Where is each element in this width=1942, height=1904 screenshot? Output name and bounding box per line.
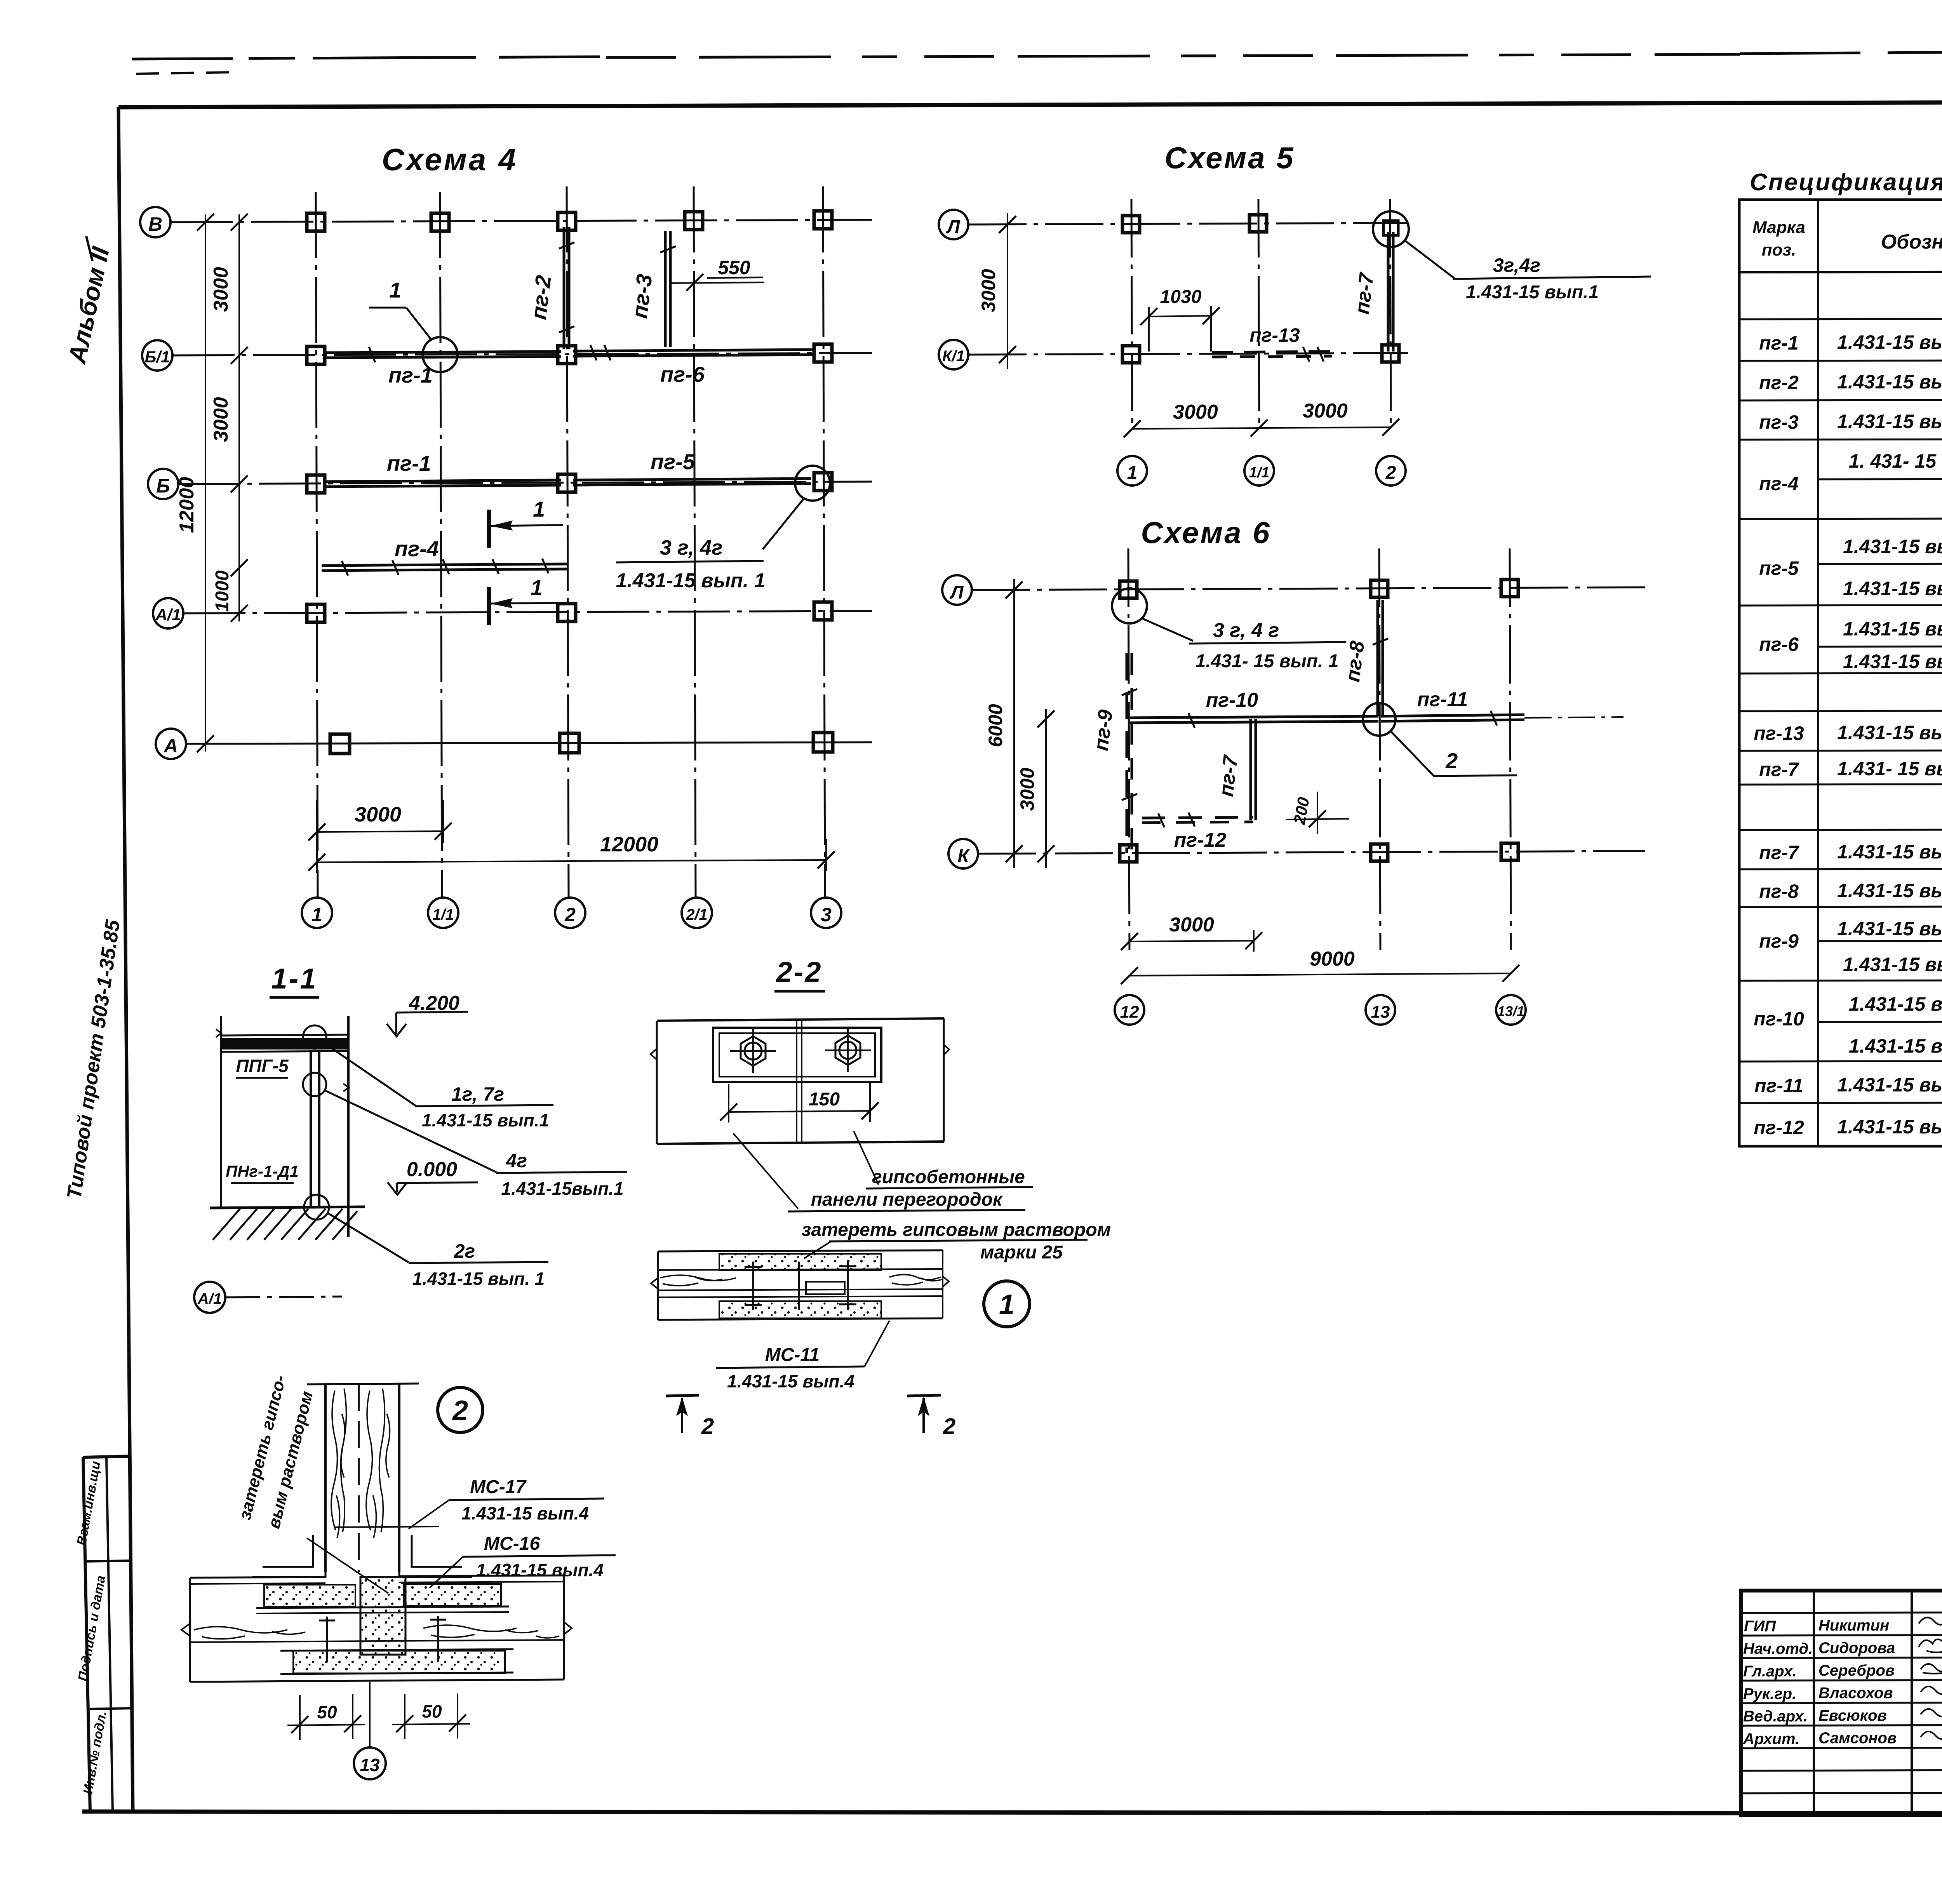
partition pg-13 on K/1 bbox=[1212, 347, 1332, 362]
node 2 wood post detail bbox=[181, 1373, 616, 1779]
svg-text:пг-10: пг-10 bbox=[1206, 689, 1258, 712]
svg-text:1.431-15 вып.4: 1.431-15 вып.4 bbox=[727, 1371, 854, 1391]
grid bubble 2 bbox=[1376, 456, 1406, 486]
svg-text:3000: 3000 bbox=[1016, 768, 1038, 811]
partition panel in section bbox=[310, 1051, 312, 1206]
svg-text:50: 50 bbox=[317, 1702, 337, 1722]
signatures squiggles bbox=[1919, 1617, 1942, 1739]
specification table bbox=[1739, 169, 1942, 1152]
svg-text:Спецификация гипсобетонных пе: Спецификация гипсобетонных перегородок bbox=[1750, 169, 1942, 196]
svg-text:МС-17: МС-17 bbox=[470, 1477, 527, 1497]
svg-text:2г: 2г bbox=[454, 1240, 475, 1262]
svg-text:1.431- 15 вып. 0,1: 1.431- 15 вып. 0,1 bbox=[1837, 758, 1942, 780]
wood grain in post bbox=[331, 1389, 390, 1538]
partition pg-1 on axis B/1 bbox=[325, 347, 561, 362]
axis A bbox=[156, 729, 872, 759]
title block outer bbox=[1741, 1591, 1942, 1815]
svg-text:пг-11: пг-11 bbox=[1417, 688, 1468, 711]
svg-text:Схема 4: Схема 4 bbox=[382, 142, 518, 177]
grid bubble 2/1 bbox=[682, 898, 712, 928]
wood grain right bbox=[889, 1275, 942, 1285]
partition pg-10 horizontal bbox=[1129, 713, 1378, 728]
grid line 12 bbox=[1128, 548, 1129, 950]
svg-text:3 г, 4г: 3 г, 4г bbox=[660, 536, 723, 559]
post cap bbox=[307, 1384, 419, 1384]
svg-text:2: 2 bbox=[1385, 463, 1396, 483]
node 1 horizontal section assembly bbox=[651, 1250, 949, 1320]
svg-text:1.431-15 вып. 0,1: 1.431-15 вып. 0,1 bbox=[1837, 722, 1942, 743]
grid line 3 bbox=[823, 186, 825, 897]
columns row B bbox=[307, 473, 832, 493]
sheet top broken trim line bbox=[132, 49, 1942, 74]
svg-text:1/1: 1/1 bbox=[432, 906, 454, 923]
svg-text:пг-13: пг-13 bbox=[1249, 324, 1300, 346]
svg-text:12000: 12000 bbox=[600, 833, 658, 856]
svg-text:Рук.гр.: Рук.гр. bbox=[1743, 1685, 1796, 1702]
svg-text:2: 2 bbox=[1445, 748, 1458, 773]
wood grain left bbox=[660, 1275, 736, 1286]
panel joint line bbox=[796, 1021, 797, 1143]
title block bbox=[1741, 1591, 1942, 1816]
columns row B/1 bbox=[307, 344, 832, 364]
svg-text:6000: 6000 bbox=[985, 704, 1006, 747]
svg-text:550: 550 bbox=[718, 257, 750, 278]
svg-text:1.431-15 вып.4: 1.431-15 вып.4 bbox=[476, 1560, 604, 1580]
svg-text:А/1: А/1 bbox=[155, 606, 181, 624]
svg-text:0.000: 0.000 bbox=[407, 1158, 457, 1181]
svg-text:пг-4: пг-4 bbox=[395, 536, 439, 561]
svg-text:12: 12 bbox=[1120, 1002, 1139, 1022]
partition pg-6 on axis B/1 bbox=[573, 345, 816, 360]
callout node 2 bbox=[1363, 703, 1517, 776]
grid bubble 3 bbox=[811, 898, 841, 928]
dim 200 bbox=[1317, 792, 1318, 834]
svg-text:А/1: А/1 bbox=[197, 1290, 222, 1307]
svg-text:1.431-15 вып.0.1: 1.431-15 вып.0.1 bbox=[1849, 1035, 1942, 1057]
schema 4 plan bbox=[140, 142, 872, 928]
svg-text:МС-11: МС-11 bbox=[765, 1345, 820, 1365]
signature table rows bbox=[1741, 1612, 1942, 1793]
grid bubble 13 bbox=[1366, 995, 1395, 1025]
svg-text:1: 1 bbox=[533, 497, 545, 521]
svg-text:поз.: поз. bbox=[1762, 240, 1796, 259]
leaders to panel note bbox=[733, 1133, 798, 1209]
svg-text:Гл.арх.: Гл.арх. bbox=[1743, 1663, 1797, 1680]
grid line 1/1 bbox=[1258, 199, 1259, 429]
svg-text:Самсонов: Самсонов bbox=[1818, 1730, 1897, 1747]
svg-text:3 г, 4 г: 3 г, 4 г bbox=[1213, 619, 1279, 642]
svg-text:13: 13 bbox=[360, 1755, 380, 1775]
callout node 1 on B/1 bbox=[369, 278, 458, 372]
svg-text:1.431-15 вып. 0,1: 1.431-15 вып. 0,1 bbox=[1843, 618, 1942, 640]
left dim 6000 bbox=[1013, 579, 1015, 868]
bottom dims 3000 3000 bbox=[1132, 427, 1391, 429]
axis K/1 bbox=[939, 340, 968, 369]
svg-text:2: 2 bbox=[701, 1414, 714, 1439]
left margin rotated labels bbox=[63, 236, 133, 1812]
svg-text:3: 3 bbox=[821, 904, 832, 926]
svg-text:9000: 9000 bbox=[1310, 948, 1355, 970]
grid line 1 bbox=[316, 192, 318, 897]
svg-text:3000: 3000 bbox=[1169, 914, 1214, 936]
svg-text:пг-4: пг-4 bbox=[1759, 473, 1799, 494]
svg-text:пг-13: пг-13 bbox=[1754, 722, 1804, 744]
svg-text:1: 1 bbox=[1127, 463, 1138, 483]
callout 3g4g schema5 bbox=[1373, 211, 1651, 303]
svg-text:3г,4г: 3г,4г bbox=[1493, 254, 1540, 276]
axis A/1 bubble below bbox=[194, 1282, 225, 1313]
svg-text:1.431-15 вып. 0,1: 1.431-15 вып. 0,1 bbox=[1837, 841, 1942, 863]
partition pg-2 vertical bbox=[559, 227, 574, 349]
axis V bbox=[140, 207, 872, 237]
dim 50 left bbox=[299, 1695, 301, 1740]
schema 6 plan bbox=[942, 515, 1645, 1025]
grid line 1 bbox=[1131, 199, 1132, 429]
svg-text:Вед.арх.: Вед.арх. bbox=[1743, 1708, 1808, 1725]
partition pg-7 vertical on 2 bbox=[1388, 232, 1393, 352]
svg-text:Власохов: Власохов bbox=[1818, 1685, 1893, 1702]
svg-text:1: 1 bbox=[531, 575, 543, 600]
svg-text:1. 431- 15 вып. 0.1: 1. 431- 15 вып. 0.1 bbox=[1849, 450, 1942, 472]
svg-text:пг-5: пг-5 bbox=[651, 449, 695, 474]
bottom dim 3000 bbox=[1129, 941, 1254, 942]
svg-text:Л: Л bbox=[950, 582, 964, 603]
svg-text:Сидорова: Сидорова bbox=[1818, 1639, 1895, 1657]
bolt right bbox=[825, 1029, 871, 1072]
partition pg-11 horizontal bbox=[1381, 711, 1524, 726]
plate under pads bbox=[256, 1606, 509, 1608]
svg-text:3000: 3000 bbox=[1303, 400, 1348, 422]
dim chain 3000/3000/1000 bbox=[238, 214, 240, 621]
floor line and ground hatch bbox=[210, 1207, 365, 1208]
svg-text:13/1: 13/1 bbox=[1497, 1003, 1524, 1019]
partition pg-3 vertical bbox=[660, 231, 676, 347]
grid line 1/1 bbox=[440, 192, 442, 897]
columns row L bbox=[1120, 580, 1518, 598]
svg-text:3000: 3000 bbox=[1173, 401, 1218, 423]
bolts through bbox=[752, 1262, 754, 1310]
partition pg-1 on axis B bbox=[325, 480, 561, 487]
floor assembly bbox=[181, 1575, 572, 1682]
svg-text:Марка: Марка bbox=[1752, 218, 1805, 237]
grid bubble 1/1 bbox=[1244, 456, 1274, 486]
axis L bbox=[939, 210, 968, 239]
svg-text:1.431- 15 вып. 1: 1.431- 15 вып. 1 bbox=[1195, 651, 1339, 672]
svg-text:1.431-15 вып.0,1: 1.431-15 вып.0,1 bbox=[1837, 1074, 1942, 1096]
anchor plate bbox=[713, 1028, 881, 1082]
grid line 13/1 bbox=[1510, 548, 1511, 950]
column lines bbox=[1818, 200, 1942, 1152]
axis A/1 bbox=[153, 598, 872, 628]
axis B bbox=[148, 469, 872, 499]
axis 13 bubble bbox=[369, 1682, 371, 1748]
grid bubble 2 bbox=[555, 898, 585, 928]
partition pg-8 vertical bbox=[1373, 600, 1388, 716]
svg-text:1: 1 bbox=[389, 278, 401, 302]
svg-text:Л: Л bbox=[946, 217, 961, 237]
section 2-2 detail bbox=[651, 956, 1111, 1439]
svg-text:ГИП: ГИП bbox=[1744, 1618, 1776, 1635]
svg-text:1.431-15 вып. 0.1: 1.431-15 вып. 0.1 bbox=[1837, 331, 1942, 353]
svg-text:1.431-15 вып.0,1: 1.431-15 вып.0,1 bbox=[1849, 993, 1942, 1015]
svg-text:пг-12: пг-12 bbox=[1754, 1117, 1804, 1138]
svg-text:12000: 12000 bbox=[176, 477, 198, 533]
svg-text:1.431-15 вып. 0,1: 1.431-15 вып. 0,1 bbox=[1837, 918, 1942, 940]
svg-text:пг-11: пг-11 bbox=[1754, 1075, 1803, 1096]
columns row A/1 bbox=[307, 602, 832, 622]
header row line bbox=[1739, 271, 1942, 272]
bottom dim 12000 bbox=[317, 860, 826, 862]
svg-text:пг-3: пг-3 bbox=[1759, 411, 1799, 433]
svg-text:1.431-15 вып. 1: 1.431-15 вып. 1 bbox=[616, 569, 765, 592]
svg-text:пг-10: пг-10 bbox=[1754, 1008, 1804, 1030]
svg-text:2: 2 bbox=[452, 1395, 468, 1426]
svg-text:В: В bbox=[148, 213, 162, 235]
grid bubble 1 bbox=[302, 898, 332, 928]
grid line 2/1 bbox=[694, 186, 696, 897]
svg-text:пг-1: пг-1 bbox=[387, 451, 431, 475]
dim chain 12000 vertical line bbox=[205, 214, 206, 752]
svg-text:1.431-15 вып. 0,1: 1.431-15 вып. 0,1 bbox=[1837, 880, 1942, 902]
svg-text:1.431-15 вып. 1: 1.431-15 вып. 1 bbox=[412, 1269, 545, 1289]
svg-text:3000: 3000 bbox=[355, 803, 401, 826]
grid bubble 1/1 bbox=[428, 898, 458, 928]
svg-text:50: 50 bbox=[422, 1701, 442, 1721]
table outer box bbox=[1739, 200, 1942, 1146]
leader 1g7g bbox=[325, 1044, 415, 1105]
signature names bbox=[1743, 1617, 1897, 1747]
svg-text:4г: 4г bbox=[506, 1150, 527, 1171]
svg-text:пг-6: пг-6 bbox=[1759, 634, 1799, 655]
partition pg-4 bbox=[322, 559, 567, 576]
svg-text:Обозначение: Обозначение bbox=[1881, 231, 1942, 253]
central plug bbox=[360, 1577, 405, 1655]
dim 150 bbox=[729, 1111, 870, 1112]
bolts bbox=[326, 1617, 328, 1662]
axis B/1 bbox=[142, 340, 872, 371]
svg-text:1.431-15 вып.0,1: 1.431-15 вып.0,1 bbox=[1837, 371, 1942, 393]
svg-text:пг-2: пг-2 bbox=[1759, 372, 1799, 393]
columns row K bbox=[1120, 843, 1518, 862]
upper gypsum pads bbox=[264, 1585, 355, 1606]
svg-text:Схема 5: Схема 5 bbox=[1164, 141, 1295, 175]
partition pg-7 vertical schema6 bbox=[1251, 719, 1256, 820]
grid bubble 1 bbox=[1117, 456, 1147, 486]
partition pg-9 vertical dashed bbox=[1122, 653, 1137, 853]
leader 4g bbox=[325, 1091, 496, 1172]
grid line 2 bbox=[1390, 199, 1391, 429]
callout node 3g4g on B x 3 bbox=[616, 466, 830, 592]
dim 1030 bbox=[1149, 316, 1211, 317]
svg-text:1.431-15 вып. 0,1: 1.431-15 вып. 0,1 bbox=[1843, 651, 1942, 672]
partition pg-5 on axis B bbox=[573, 479, 811, 485]
svg-text:К/1: К/1 bbox=[942, 348, 965, 365]
svg-text:1: 1 bbox=[999, 1289, 1015, 1320]
svg-text:пг-8: пг-8 bbox=[1759, 881, 1799, 902]
section arrow 2 right bbox=[907, 1395, 955, 1439]
svg-text:1г, 7г: 1г, 7г bbox=[451, 1083, 504, 1105]
section 1-1 detail bbox=[194, 962, 627, 1313]
grid line 2 bbox=[567, 186, 569, 897]
schema 5 plan bbox=[939, 141, 1651, 486]
svg-text:пг-12: пг-12 bbox=[1174, 829, 1227, 851]
svg-text:1: 1 bbox=[311, 904, 322, 926]
svg-text:МС-16: МС-16 bbox=[484, 1533, 540, 1554]
partition pg-12 horizontal dashed bbox=[1142, 813, 1253, 827]
svg-text:Б/1: Б/1 bbox=[145, 348, 170, 366]
axis L bbox=[942, 575, 972, 605]
svg-text:2: 2 bbox=[564, 904, 576, 926]
svg-text:Евсюков: Евсюков bbox=[1818, 1707, 1887, 1724]
lower gypsum band bbox=[293, 1651, 505, 1673]
svg-text:1.431-15 вып.1: 1.431-15 вып.1 bbox=[422, 1110, 549, 1130]
svg-text:3000: 3000 bbox=[210, 397, 232, 442]
row lines bbox=[1739, 318, 1942, 1103]
left dim 3000 bbox=[1045, 709, 1047, 868]
svg-text:1.431-15 вып. 0,1: 1.431-15 вып. 0,1 bbox=[1843, 536, 1942, 557]
svg-text:1.431-15вып.1: 1.431-15вып.1 bbox=[501, 1178, 623, 1199]
svg-text:1.431-15 вып. 0,1: 1.431-15 вып. 0,1 bbox=[1843, 578, 1942, 599]
svg-text:марки 25: марки 25 bbox=[980, 1242, 1063, 1263]
svg-text:2-2: 2-2 bbox=[776, 956, 823, 988]
margin stamp box bbox=[83, 1456, 133, 1812]
svg-text:1.431-15 вып. 0,1: 1.431-15 вып. 0,1 bbox=[1837, 411, 1942, 432]
svg-text:1-1: 1-1 bbox=[271, 962, 318, 995]
body texts bbox=[1754, 291, 1942, 1140]
bottom dim 3000 bbox=[317, 831, 443, 832]
svg-text:3000: 3000 bbox=[978, 269, 999, 312]
torn sheet edge dashes bbox=[132, 57, 606, 59]
grid bubble 12 bbox=[1115, 995, 1144, 1025]
bottom boundary bbox=[190, 1679, 564, 1682]
svg-text:1.431-15 вып.0,1: 1.431-15 вып.0,1 bbox=[1837, 1116, 1942, 1138]
main border frame bbox=[118, 101, 1942, 107]
bolt left bbox=[730, 1029, 776, 1073]
svg-text:пг-5: пг-5 bbox=[1759, 557, 1799, 579]
bottom dim 9000 bbox=[1129, 973, 1511, 976]
svg-text:1.431-15 вып.4: 1.431-15 вып.4 bbox=[461, 1503, 589, 1523]
svg-text:Архит.: Архит. bbox=[1743, 1730, 1799, 1747]
svg-text:1030: 1030 bbox=[1160, 287, 1202, 307]
columns bbox=[1122, 215, 1399, 363]
svg-text:К: К bbox=[957, 846, 970, 867]
columns row A bbox=[330, 733, 833, 754]
left dim 3000 bbox=[1007, 213, 1008, 369]
svg-text:1/1: 1/1 bbox=[1249, 465, 1270, 481]
svg-text:2: 2 bbox=[943, 1414, 955, 1439]
svg-text:3000: 3000 bbox=[210, 267, 232, 312]
svg-text:2/1: 2/1 bbox=[686, 906, 708, 923]
ceiling slab bbox=[222, 1038, 348, 1049]
svg-text:150: 150 bbox=[809, 1089, 840, 1110]
grid line 13 bbox=[1379, 548, 1380, 950]
header texts bbox=[1752, 215, 1942, 259]
signature table verticals bbox=[1814, 1591, 1942, 1815]
section mark 1 lower bbox=[489, 575, 563, 625]
svg-text:Нач.отд.: Нач.отд. bbox=[1743, 1640, 1813, 1657]
svg-text:Схема 6: Схема 6 bbox=[1141, 515, 1271, 550]
wall lines bbox=[220, 1016, 222, 1207]
svg-text:затереть гипсовым раствором: затереть гипсовым раствором bbox=[802, 1220, 1111, 1240]
leader 2g bbox=[327, 1213, 409, 1262]
svg-text:пг-6: пг-6 bbox=[660, 362, 705, 386]
wood joist band bbox=[190, 1640, 564, 1642]
node 2 ring bbox=[438, 1387, 483, 1432]
columns row V bbox=[307, 211, 832, 231]
dim 550 bbox=[669, 282, 764, 283]
plan view strip bbox=[657, 1018, 944, 1021]
post sides bbox=[324, 1384, 327, 1572]
svg-text:пг-9: пг-9 bbox=[1759, 930, 1799, 952]
svg-text:панели перегородок: панели перегородок bbox=[811, 1189, 1003, 1210]
svg-text:А: А bbox=[163, 735, 178, 757]
svg-text:1000: 1000 bbox=[212, 570, 233, 612]
svg-text:пг-7: пг-7 bbox=[1759, 759, 1799, 780]
callout 3g4g schema6 bbox=[1112, 588, 1346, 672]
callout rings on panel bbox=[303, 1025, 326, 1049]
svg-text:ПНг-1-Д1: ПНг-1-Д1 bbox=[226, 1162, 299, 1180]
grid bubble 13/1 bbox=[1496, 995, 1526, 1025]
svg-text:пг-7: пг-7 bbox=[1759, 842, 1799, 863]
svg-text:пг-1: пг-1 bbox=[1759, 332, 1799, 354]
node 1 ring bbox=[984, 1281, 1030, 1327]
svg-text:1.431-15 вып. 0,1: 1.431-15 вып. 0,1 bbox=[1843, 954, 1942, 975]
svg-text:Б: Б bbox=[156, 475, 170, 497]
axis K bbox=[948, 839, 978, 868]
svg-text:1.431-15 вып.1: 1.431-15 вып.1 bbox=[1466, 282, 1599, 303]
svg-text:Никитин: Никитин bbox=[1818, 1617, 1889, 1634]
section arrow 2 left bbox=[666, 1395, 714, 1439]
svg-text:ППГ-5: ППГ-5 bbox=[236, 1056, 289, 1076]
svg-text:Серебров: Серебров bbox=[1818, 1662, 1895, 1679]
angle brackets at post base bbox=[252, 1529, 472, 1577]
dim 50 right bbox=[404, 1694, 405, 1739]
svg-text:13: 13 bbox=[1371, 1002, 1390, 1022]
section mark 1 upper bbox=[489, 497, 563, 548]
svg-text:гипсобетонные: гипсобетонные bbox=[872, 1167, 1025, 1187]
